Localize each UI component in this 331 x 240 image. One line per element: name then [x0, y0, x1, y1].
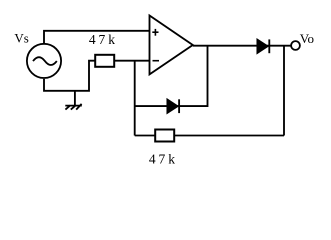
- svg-text:47k: 47k: [89, 32, 118, 47]
- svg-text:Vo: Vo: [300, 31, 314, 46]
- svg-text:47k: 47k: [149, 151, 178, 166]
- svg-text:Vs: Vs: [14, 31, 28, 46]
